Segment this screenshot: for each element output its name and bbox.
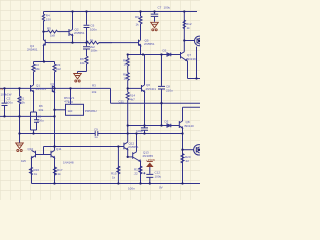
- transistor Q9 circle: [194, 145, 204, 155]
- wire mirror base tap up: [43, 147, 45, 155]
- ground symbol rail cap (brown): [151, 22, 159, 31]
- resistor R5: [48, 30, 58, 33]
- svg-text:2N5401: 2N5401: [27, 48, 38, 52]
- svg-text:470: 470: [64, 100, 69, 104]
- wire feedback line y133.5: [20, 133, 145, 135]
- resistor R8 vertical: [85, 56, 88, 72]
- svg-text:2N5551: 2N5551: [36, 87, 47, 91]
- diode D2 inline y54.5: [167, 53, 171, 56]
- wire C6 bottom to y42.6: [86, 28, 88, 43]
- resistor R12 on x184.3: [183, 20, 185, 29]
- svg-text:2N5551: 2N5551: [128, 145, 139, 149]
- resistor R11 vertical: [126, 73, 129, 89]
- wire node A down to mirror: [54, 88, 56, 150]
- wire input line y88.4: [0, 87, 111, 89]
- svg-text:1N4148: 1N4148: [63, 161, 74, 165]
- wire Q12 collector up: [127, 134, 129, 143]
- diode D3 inline y125.5: [167, 124, 171, 127]
- wire C2 bottom: [4, 106, 6, 117]
- wire branch x86.5 down: [86, 43, 88, 47]
- wire VAS mirror line y146.5: [44, 146, 124, 148]
- wire Q4 emitter to R7 top: [34, 61, 55, 63]
- svg-text:PR50SU: PR50SU: [85, 109, 97, 113]
- trimmer RV1 box: [66, 104, 84, 115]
- capacitor C6 plates: [84, 25, 90, 27]
- svg-text:1k: 1k: [124, 76, 128, 80]
- svg-text:.22: .22: [134, 172, 139, 176]
- transistor Q5: [139, 40, 141, 46]
- transistor Q4: [43, 40, 47, 46]
- resistor R7 vertical: [53, 62, 56, 89]
- wire Q3 base line: [184, 40, 194, 42]
- wire feedback split left: [31, 112, 37, 130]
- resistor R2 vertical x33: [32, 62, 35, 86]
- svg-text:1k0: 1k0: [68, 109, 73, 113]
- wire x127.7 to bias resistor: [117, 147, 119, 184]
- wire y133.5 to driver right: [145, 133, 183, 135]
- resistor R1 x19: [18, 88, 21, 116]
- wire Q7 emitter down: [187, 61, 189, 79]
- capacitor C5 plates: [34, 112, 39, 130]
- transistor Q13: [133, 152, 141, 162]
- svg-text:1k: 1k: [34, 172, 38, 176]
- wire ground line y116.4: [0, 115, 55, 117]
- resistor R20 zigzag: [181, 154, 184, 164]
- wire output line y103.2: [111, 102, 201, 104]
- svg-text:100n: 100n: [90, 28, 97, 32]
- wire Q8 emitter down: [182, 128, 184, 150]
- wire Q13 collector up: [136, 134, 138, 152]
- capacitor C7 plates: [151, 14, 158, 16]
- resistor R14 vertical: [126, 88, 129, 133]
- svg-text:1k: 1k: [187, 26, 191, 30]
- svg-text:1k2: 1k2: [56, 67, 61, 71]
- resistor R10 vertical: [126, 55, 129, 73]
- wire Q7 base stub: [178, 54, 181, 56]
- svg-text:Q3: Q3: [51, 82, 55, 86]
- wire input shunt x5: [4, 88, 6, 102]
- svg-text:100u: 100u: [6, 101, 13, 105]
- svg-text:100n: 100n: [91, 49, 98, 53]
- wire jog to ground: [78, 72, 87, 74]
- svg-text:4k7: 4k7: [130, 98, 135, 102]
- transistor Q10: [31, 150, 35, 157]
- wire Q7 collector to rail: [183, 12, 185, 52]
- wire Q6 emitter down: [144, 92, 146, 126]
- resistor R18 zigzag: [139, 166, 142, 174]
- svg-text:R9: R9: [135, 15, 139, 19]
- wire Q13 emitter down: [140, 162, 142, 184]
- svg-text:D2: D2: [163, 49, 167, 53]
- wire Q6 base stub: [128, 87, 142, 89]
- svg-text:2N5551: 2N5551: [144, 42, 155, 46]
- wire electrolytic drop x162: [161, 55, 163, 86]
- wire port cap stem: [146, 167, 153, 183]
- svg-text:+POW: +POW: [146, 158, 155, 162]
- transistor Q3 circle: [195, 36, 205, 46]
- wire x19 gnd stub: [19, 134, 21, 143]
- capacitor C4 plates: [83, 47, 90, 49]
- svg-text:56k: 56k: [35, 67, 40, 71]
- wire x19 down to y133.5: [19, 116, 21, 133]
- svg-text:D3: D3: [165, 120, 169, 124]
- wire C4 bottom: [86, 49, 88, 56]
- svg-text:100u: 100u: [164, 5, 171, 9]
- resistor R9 drop x140.5: [139, 12, 142, 41]
- wire Q3 emitter down: [196, 47, 198, 79]
- wire output emitter res x182.5: [182, 150, 184, 184]
- svg-text:1k: 1k: [58, 172, 62, 176]
- svg-text:33k: 33k: [38, 108, 43, 112]
- wire mirror base join: [36, 154, 52, 156]
- wire feedback rejoin down: [33, 130, 35, 134]
- resistor R15 zigzag: [117, 166, 120, 174]
- transistor Q7: [181, 52, 188, 61]
- wire top positive rail: [44, 11, 198, 13]
- transistor Q3 internals: [197, 38, 200, 44]
- ground symbol input (brown): [16, 143, 24, 152]
- wire q8 collector up: [182, 107, 184, 121]
- svg-text:BD139: BD139: [187, 57, 197, 61]
- wire emitter out right: [188, 78, 201, 80]
- svg-text:Q10: Q10: [28, 147, 34, 151]
- wire pot wiper drop: [70, 88, 72, 104]
- wire mirror left leg: [31, 158, 33, 184]
- wire Q6 collector up: [144, 55, 146, 86]
- capacitor C2 plates: [2, 103, 8, 105]
- ground symbol mid (brown): [74, 74, 82, 83]
- wire VAS line y54.5 corner: [128, 54, 180, 56]
- wire Q12 emitter down: [127, 150, 129, 157]
- resistor R16 zigzag left: [30, 167, 33, 175]
- svg-text:1k: 1k: [124, 62, 128, 66]
- transistor Q6: [142, 85, 145, 92]
- svg-text:1k: 1k: [112, 176, 116, 180]
- wire base line y31.6: [44, 31, 48, 33]
- svg-text:100p: 100p: [136, 129, 143, 133]
- wire mirror right leg: [54, 158, 56, 184]
- svg-text:BD140: BD140: [185, 124, 195, 128]
- wire rail cap drop x154.5: [154, 12, 156, 14]
- wire C7 bottom to ground: [154, 17, 156, 22]
- wire Q5 emitter down: [140, 46, 142, 55]
- wire R5 to Q2 base: [58, 31, 70, 33]
- wire bottom negative rail: [32, 183, 201, 185]
- svg-text:100n: 100n: [128, 187, 135, 191]
- svg-text:1k: 1k: [136, 23, 140, 27]
- wire drive line y125.5: [128, 125, 180, 127]
- svg-text:C11: C11: [119, 100, 125, 104]
- svg-text:.22: .22: [185, 159, 190, 163]
- svg-text:220u: 220u: [166, 89, 173, 93]
- resistor R4 on V+ drop: [42, 12, 44, 41]
- transistor Q12: [124, 142, 128, 149]
- resistor R17 zigzag right: [54, 167, 57, 175]
- svg-text:100u: 100u: [155, 175, 162, 179]
- svg-text:R3: R3: [92, 84, 96, 88]
- wire Q2 collector up: [72, 12, 74, 30]
- svg-text:R5: R5: [47, 27, 51, 31]
- wire q8 collector line y107.2: [183, 106, 201, 108]
- svg-text:10k: 10k: [80, 61, 85, 65]
- capacitor C10 on x144.5: [141, 126, 148, 134]
- power port -35V (maroon): [147, 162, 153, 167]
- wire Q4 emitter down: [43, 46, 45, 62]
- wire pot pin line: [55, 109, 66, 111]
- svg-text:1u: 1u: [94, 135, 98, 139]
- transistor Q8: [179, 121, 182, 128]
- capacitor C8 plates: [158, 86, 165, 89]
- plus mark C12: [143, 172, 145, 174]
- svg-text:1k: 1k: [90, 38, 94, 42]
- svg-text:10k: 10k: [92, 90, 97, 94]
- wire Q12 emitter to Q13 base: [128, 156, 133, 158]
- svg-text:150: 150: [46, 17, 51, 21]
- transistor Q9 internals: [196, 147, 199, 153]
- wire y42.6 to Q5 base: [99, 42, 139, 44]
- wire Q9 base line: [183, 149, 194, 151]
- svg-text:1k8: 1k8: [50, 33, 55, 37]
- svg-text:Q11: Q11: [56, 147, 62, 151]
- wire Q2 emitter down: [72, 36, 74, 43]
- transistor Q3b: [52, 86, 54, 93]
- svg-text:2N5401: 2N5401: [146, 87, 157, 91]
- svg-text:2N5551: 2N5551: [74, 31, 85, 35]
- wire second stage line y42.6: [48, 42, 87, 44]
- transistor Q11: [51, 150, 55, 157]
- transistor Q1: [31, 85, 34, 92]
- wire Q1 emitter down: [33, 92, 35, 112]
- wire input cap drop x86.5: [86, 12, 88, 25]
- svg-text:C9: C9: [94, 128, 98, 132]
- svg-text:15k: 15k: [20, 101, 25, 105]
- svg-text:100u: 100u: [37, 119, 44, 123]
- svg-text:IN: IN: [0, 87, 3, 91]
- wire C8 bottom: [161, 89, 163, 125]
- transistor Q2: [69, 29, 73, 36]
- resistor R6 inline: [86, 41, 112, 44]
- capacitor C9 inline plates: [95, 131, 98, 136]
- svg-text:C7: C7: [158, 5, 162, 9]
- wire VAS corner down x110.9: [110, 88, 112, 103]
- svg-text:0V: 0V: [159, 186, 163, 190]
- svg-text:1k5: 1k5: [21, 159, 26, 163]
